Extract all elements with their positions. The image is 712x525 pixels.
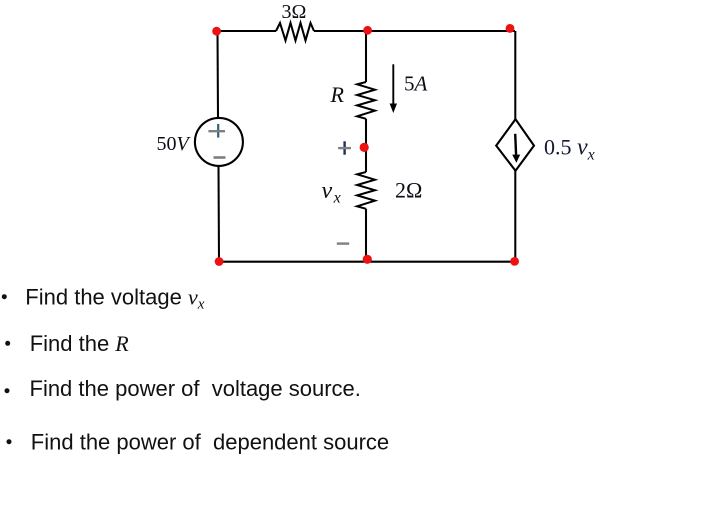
node top-middle red dot <box>363 26 372 35</box>
svg-text:5A: 5A <box>404 72 428 96</box>
node middle (+) red dot <box>360 143 369 152</box>
resistor 3Ω (horizontal zigzag) <box>276 23 314 41</box>
svg-text:vx: vx <box>322 178 341 207</box>
svg-text:Find the power of voltage sou: Find the power of voltage source. <box>30 376 361 401</box>
svg-text:Find the R: Find the R <box>30 331 130 356</box>
polarity plus of vx <box>343 141 345 154</box>
node bottom-right red dot <box>510 257 519 266</box>
svg-text:R: R <box>330 82 345 107</box>
wire right rail lower <box>514 171 516 262</box>
wire bottom <box>218 261 515 263</box>
bullet 1 dot <box>2 294 7 299</box>
svg-text:2Ω: 2Ω <box>395 178 422 203</box>
wire middle branch between R and node <box>365 119 367 172</box>
current arrow 5A <box>392 64 394 105</box>
bullet 2 dot <box>5 341 10 346</box>
bullet 3 dot <box>5 388 10 393</box>
voltage source V1 circle <box>195 118 243 166</box>
dependent current source diamond <box>496 119 534 171</box>
node top-right red dot <box>506 24 515 33</box>
voltage source minus sign <box>214 156 226 159</box>
wire left rail lower <box>217 166 220 262</box>
node top-left red dot <box>212 27 221 36</box>
wire right rail upper <box>514 31 516 119</box>
wire middle branch upper <box>365 31 367 82</box>
node bottom-middle red dot <box>363 255 372 264</box>
bullet 4 dot <box>7 439 12 444</box>
svg-text:3Ω: 3Ω <box>282 1 307 23</box>
resistor R (vertical zigzag) <box>357 82 375 119</box>
svg-text:Find the voltage vx: Find the voltage vx <box>25 284 204 312</box>
wire top-left segment <box>217 30 276 32</box>
svg-text:0.5 vx: 0.5 vx <box>544 134 595 163</box>
voltage source plus sign <box>217 124 219 138</box>
wire left rail upper <box>216 31 219 118</box>
wire middle branch lower <box>365 209 367 262</box>
svg-text:50V: 50V <box>157 133 192 155</box>
dependent source arrow <box>514 134 517 155</box>
polarity minus of vx <box>337 242 349 244</box>
wire top-middle segment <box>314 30 515 32</box>
svg-text:Find the power of dependent s: Find the power of dependent source <box>31 430 389 455</box>
resistor 2Ω (vertical zigzag) <box>357 172 375 209</box>
node bottom-left red dot <box>215 257 224 266</box>
